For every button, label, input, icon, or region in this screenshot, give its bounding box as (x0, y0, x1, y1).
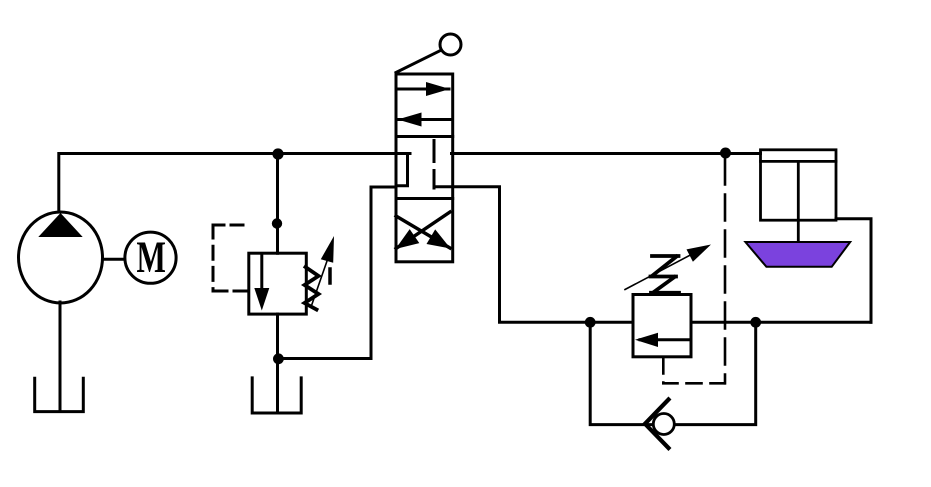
relief valve V1 internal arrow (down) (260, 256, 263, 291)
directional valve DV1 position-1 arrow right (398, 88, 450, 91)
relief valve V1 body (249, 253, 306, 314)
node J1 (main line / relief valve branch) (272, 148, 283, 159)
directional valve DV1 body (396, 74, 453, 262)
relief valve V1 pilot line (dashed) (213, 224, 243, 227)
counterbalance valve V2 body (633, 295, 691, 357)
node J3 (relief tank line / valve drain branch) (273, 353, 284, 364)
tank T1 (pump tank) (35, 378, 84, 411)
node J6 (bypass right junction) (750, 317, 761, 328)
counterbalance valve V2 spring (652, 254, 679, 258)
relief valve V1 spring (305, 267, 319, 310)
wire main line down to relief valve (276, 154, 279, 254)
load W1 (weight on cylinder) (745, 242, 850, 267)
directional valve DV1 divider top/middle (396, 135, 453, 138)
check valve CV1 (653, 414, 674, 435)
wire main supply line P from pump to junctions and cylinder (59, 154, 410, 213)
counterbalance valve V2 pilot (dashed) to J4 line (663, 359, 724, 384)
counterbalance valve V2 internal arrow (left) (640, 338, 688, 341)
cylinder C1 body (761, 150, 837, 220)
wire pump to tank (59, 302, 62, 411)
counterbalance valve V2 adjustment arrow (625, 252, 697, 290)
wire flow valve output to cylinder return (691, 321, 871, 324)
node J4 (main line / pilot dashed branch) (720, 148, 731, 159)
motor M1 (125, 232, 176, 283)
directional valve DV1 center position dashed passage (433, 141, 436, 189)
directional valve DV1 divider middle/bottom (396, 197, 453, 200)
directional valve DV1 center position U-connection (396, 154, 408, 186)
tank T2 (relief valve tank) (252, 378, 301, 413)
wire cylinder rod-end port to flow valve line (836, 219, 871, 322)
wire relief valve to tank (276, 314, 279, 413)
pilot line (dashed) from J4 down (724, 159, 727, 384)
directional valve DV1 crossed position X (396, 216, 450, 248)
wire drain from directional valve left port (278, 187, 396, 359)
wire directional valve right port to flow control valve (434, 187, 633, 323)
node J5 (bypass left junction) (585, 317, 596, 328)
node J2 (pilot tap above relief valve) (272, 218, 282, 228)
cylinder C1 rod (797, 161, 800, 242)
pump P1 (19, 212, 103, 303)
directional valve DV1 lever (396, 50, 442, 73)
directional valve DV1 position-1 arrow left (398, 118, 451, 121)
relief valve V1 adjustment arrow (311, 261, 327, 307)
cylinder C1 piston (761, 160, 837, 163)
wire bypass loop with check valve (590, 322, 756, 424)
wire pump-motor coupling (103, 258, 125, 261)
